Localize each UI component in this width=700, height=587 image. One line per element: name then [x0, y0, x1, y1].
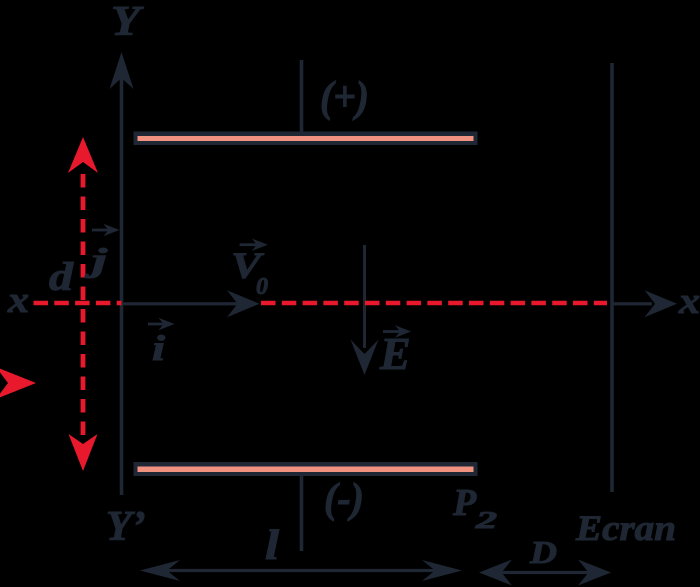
- svg-text:x: x: [7, 280, 29, 321]
- svg-text:D: D: [529, 534, 557, 570]
- svg-text:(+): (+): [320, 74, 369, 121]
- svg-text:Y’: Y’: [106, 504, 146, 550]
- svg-text:(-): (-): [324, 476, 364, 522]
- svg-text:d: d: [49, 254, 74, 299]
- svg-text:x: x: [678, 281, 700, 322]
- svg-text:Y: Y: [111, 0, 144, 45]
- svg-text:2: 2: [474, 508, 497, 534]
- svg-text:Ecran: Ecran: [575, 508, 676, 548]
- svg-text:E: E: [379, 328, 411, 379]
- svg-text:i: i: [152, 328, 165, 368]
- svg-text:0: 0: [256, 274, 268, 300]
- svg-text:P: P: [452, 482, 477, 524]
- svg-text:l: l: [265, 523, 279, 569]
